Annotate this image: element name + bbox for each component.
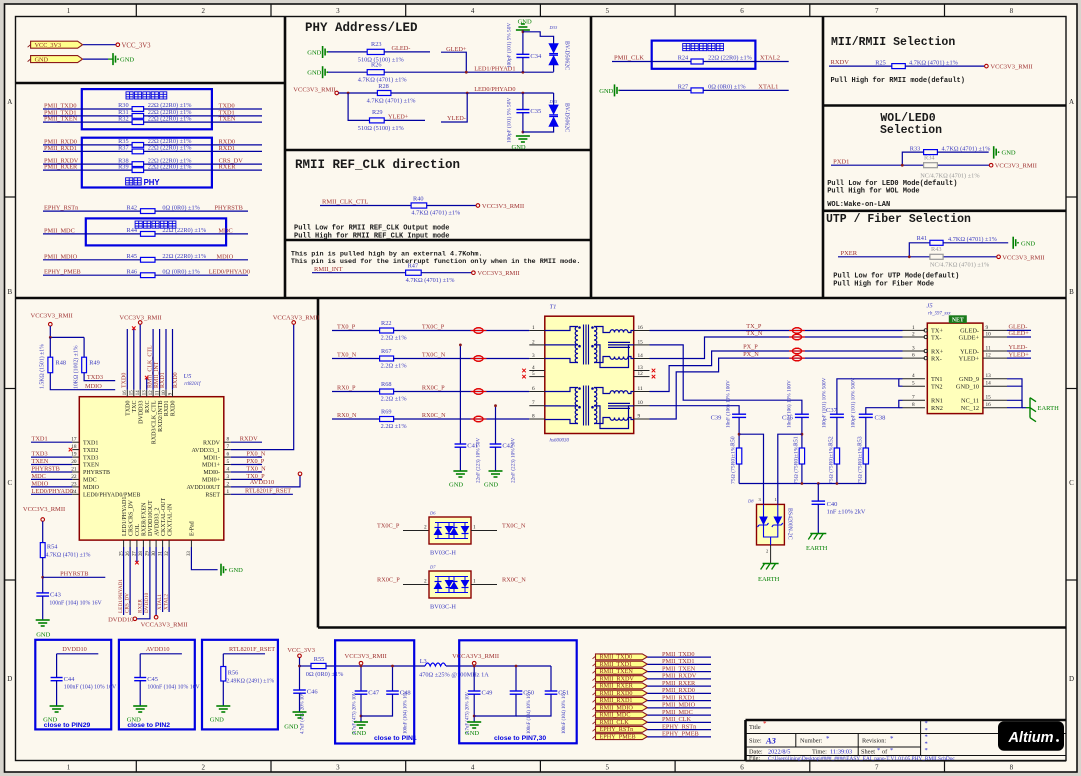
wire TX0C_P: [394, 330, 530, 332]
svg-text:9: 9: [986, 325, 989, 331]
group box close-to-core-board: [82, 89, 212, 129]
wire: [140, 653, 182, 655]
svg-text:YLED-: YLED-: [960, 348, 979, 355]
wire: [50, 326, 84, 337]
wire: [42, 596, 44, 620]
svg-text:PX0_P: PX0_P: [246, 458, 264, 465]
wire CKXTAL-IN down: [168, 547, 170, 612]
wire: [299, 693, 301, 712]
svg-text:EARTH: EARTH: [1038, 405, 1060, 412]
port GND: [31, 56, 83, 63]
resistor R23: [367, 49, 384, 54]
svg-text:1: 1: [67, 764, 71, 772]
wire CKXTAL-OUT down: [162, 547, 164, 612]
svg-text:RX0_P: RX0_P: [337, 384, 356, 391]
svg-text:RX+: RX+: [931, 348, 944, 355]
pin stubs bottom: [123, 540, 125, 547]
wire LED1/PHYAD1 net: [384, 71, 553, 73]
svg-text:NC/4.7KΩ (4701) ±1%: NC/4.7KΩ (4701) ±1%: [920, 173, 980, 180]
pin stubs transformer right: [634, 330, 650, 332]
wire TX0_N: [332, 358, 380, 360]
svg-text:GND: GND: [120, 57, 134, 64]
svg-text:R27: R27: [678, 84, 689, 91]
wire TX_P net: [650, 330, 903, 332]
power port GND c41: [453, 470, 467, 472]
wire: [49, 337, 51, 357]
wire GND_9/GND_10 join: [1007, 379, 1022, 386]
svg-text:LED0/PHYAD0: LED0/PHYAD0: [474, 86, 515, 93]
svg-text:RX0C_N: RX0C_N: [502, 577, 526, 584]
svg-text:R54: R54: [47, 543, 58, 550]
resistor R51: [799, 448, 804, 464]
wire AVDD33_1 to VCCA3V3_RMII: [231, 324, 294, 449]
svg-text:3: 3: [336, 764, 340, 772]
svg-text:VCCA3V3_RMII: VCCA3V3_RMII: [141, 622, 188, 629]
svg-text:*: *: [925, 747, 928, 754]
power port VCCA3V3_RMII right: [292, 321, 296, 325]
wire: [299, 658, 301, 690]
svg-text:0Ω (0R0) ±1%: 0Ω (0R0) ±1%: [306, 671, 344, 678]
wire TX0_N pin4: [231, 471, 262, 473]
svg-text:PMII_CLK: PMII_CLK: [662, 716, 691, 723]
differential pair directive RX0C_N: [471, 418, 487, 420]
wire: [905, 65, 984, 67]
svg-text:100pF (101) 5% 50V: 100pF (101) 5% 50V: [506, 23, 513, 68]
wire TXC vertical: [133, 329, 135, 390]
svg-text:MDI0-: MDI0-: [203, 470, 220, 476]
svg-text:2: 2: [532, 339, 535, 345]
svg-text:DVDD10: DVDD10: [108, 616, 133, 623]
wire MDC net: [155, 233, 248, 235]
svg-text:PMII_RXD0: PMII_RXD0: [662, 687, 695, 694]
op-amp U5 RTL8201F body: [79, 397, 224, 540]
svg-text:4.7KΩ (4701) ±1%: 4.7KΩ (4701) ±1%: [909, 59, 959, 66]
svg-text:4.7KΩ (4701) ±1%: 4.7KΩ (4701) ±1%: [367, 97, 417, 104]
svg-text:RMII_RXDV: RMII_RXDV: [600, 675, 635, 682]
svg-text:BV03C-H: BV03C-H: [430, 550, 456, 557]
wire: [738, 417, 740, 448]
port RMII_RXDV: [596, 676, 648, 682]
wire EPHY_PMEB net: [43, 274, 141, 276]
resistor R53: [863, 448, 868, 464]
svg-text:U5: U5: [183, 373, 192, 380]
wire CRS_DV down: [129, 547, 131, 615]
wire MDIO net: [155, 259, 248, 261]
svg-text:RXER: RXER: [138, 599, 144, 613]
svg-text:4.7KΩ (4701) ±1%: 4.7KΩ (4701) ±1%: [411, 209, 461, 216]
wire shield to EARTH: [1021, 386, 1023, 408]
svg-text:10nF (106) 10% 100V: 10nF (106) 10% 100V: [725, 380, 732, 428]
svg-text:A: A: [1069, 98, 1074, 106]
svg-text:PX0_N: PX0_N: [246, 451, 265, 458]
svg-text:D: D: [7, 675, 12, 683]
wire TXEN to pin 20: [31, 464, 72, 466]
svg-text:DVDD10OUT: DVDD10OUT: [148, 500, 154, 536]
svg-text:close to PIN1: close to PIN1: [374, 735, 417, 742]
power port VCC3V3_RMII: [472, 271, 476, 275]
svg-text:GND: GND: [352, 730, 366, 737]
wire RX0C_N: [471, 584, 497, 586]
svg-text:R50: R50: [731, 436, 737, 446]
wire: [522, 58, 524, 72]
wire: [473, 665, 475, 691]
wire: [738, 464, 740, 484]
resistor R24: [691, 59, 703, 64]
svg-text:8: 8: [532, 413, 535, 419]
wire PMII_TXD1 net: [43, 115, 132, 117]
transformer TX winding: [545, 327, 578, 331]
wire PMII_RXD1 net: [43, 150, 132, 152]
svg-text:7: 7: [912, 395, 915, 401]
svg-text:VCC3V3_RMII: VCC3V3_RMII: [1002, 254, 1044, 261]
svg-text:BV03C-H: BV03C-H: [430, 604, 456, 611]
svg-text:EPHY_RSTn: EPHY_RSTn: [600, 726, 634, 733]
wire TX0_P pin3: [231, 478, 262, 480]
resistor R56: [221, 667, 226, 682]
svg-text:YLED+: YLED+: [388, 114, 409, 121]
wire E-Pad to GND: [191, 547, 217, 570]
svg-text:C38: C38: [875, 414, 886, 421]
wire LED0/PHYAD0 to pin 24: [31, 493, 72, 495]
svg-text:DVDD10: DVDD10: [144, 592, 150, 613]
power port VCC3V3_RMII: [476, 204, 480, 208]
wire PMII_RXER: [647, 685, 711, 687]
wire: [516, 694, 551, 716]
svg-text:Pull High for RMII mode(defaul: Pull High for RMII mode(default): [831, 77, 965, 85]
svg-text:R42: R42: [127, 204, 138, 211]
svg-text:11: 11: [986, 345, 991, 351]
svg-text:22nF (223) 10% 50V: 22nF (223) 10% 50V: [510, 438, 517, 483]
svg-text:4.7KΩ (4701) ±1%: 4.7KΩ (4701) ±1%: [942, 145, 992, 152]
svg-text:8: 8: [912, 402, 915, 408]
svg-text:R43: R43: [931, 246, 942, 253]
svg-text:13: 13: [638, 365, 644, 371]
svg-text:Pull Low for UTP Mode(default): Pull Low for UTP Mode(default): [833, 273, 959, 281]
power port AVDD10 right: [298, 472, 302, 476]
wire C40 branch: [817, 484, 819, 502]
svg-text:R56: R56: [228, 669, 239, 676]
wire RXER net: [144, 169, 262, 171]
wire TX0C_N: [394, 358, 530, 360]
wire: [937, 151, 988, 153]
svg-text:6: 6: [912, 353, 915, 359]
wire: [831, 164, 989, 166]
svg-text:EPHY_RSTn: EPHY_RSTn: [44, 205, 79, 212]
wire TX0C_N: [471, 530, 497, 532]
svg-text:RXD1: RXD1: [164, 401, 170, 417]
svg-text:D33: D33: [549, 25, 558, 30]
svg-text:PHY Address/LED: PHY Address/LED: [305, 21, 418, 35]
svg-text:EARTH: EARTH: [806, 545, 828, 552]
wire: [339, 92, 378, 94]
wire RXD0 net: [144, 144, 262, 146]
svg-text:6: 6: [740, 7, 744, 15]
wire CRS_DV net: [144, 163, 262, 165]
wire: [459, 447, 461, 471]
svg-text:1.5KΩ (1501) ±1%: 1.5KΩ (1501) ±1%: [39, 344, 46, 389]
wire LED1/PHYAD1 down: [123, 547, 125, 615]
no-ERC mark RXC: [145, 376, 149, 380]
resistor R33: [924, 150, 938, 155]
svg-text:11:39:03: 11:39:03: [830, 749, 852, 756]
svg-text:TN2: TN2: [931, 384, 943, 391]
svg-text:R24: R24: [678, 55, 689, 62]
svg-text:TX-: TX-: [931, 334, 942, 341]
svg-text:NC/4.7KΩ (4701) ±1%: NC/4.7KΩ (4701) ±1%: [930, 261, 990, 268]
svg-text:C44: C44: [64, 676, 76, 683]
svg-text:PHYRSTB: PHYRSTB: [215, 205, 243, 212]
port RMII_RXER: [596, 683, 648, 689]
svg-text:TXD3: TXD3: [32, 451, 48, 458]
svg-text:2.2Ω ±1%: 2.2Ω ±1%: [381, 335, 408, 342]
capacitor C40: [812, 500, 826, 502]
svg-text:BV-D5062C: BV-D5062C: [564, 103, 570, 132]
wire RXER down: [142, 547, 144, 615]
svg-text:E-Pad: E-Pad: [190, 521, 196, 536]
wire COL stub: [136, 547, 138, 562]
svg-text:RX0C_P: RX0C_P: [422, 384, 445, 391]
capacitor C50: [515, 666, 517, 691]
svg-text:C37: C37: [826, 407, 838, 414]
svg-text:4: 4: [532, 365, 535, 371]
svg-text:LED0/PHYAD0: LED0/PHYAD0: [32, 488, 73, 495]
svg-text:GND: GND: [512, 144, 526, 151]
power port GND c49: [467, 721, 481, 723]
svg-text:COL: COL: [135, 524, 141, 536]
no-ERC mark pin18: [69, 448, 73, 452]
svg-text:MDIO: MDIO: [217, 253, 234, 260]
differential pair directive PX_N: [789, 357, 805, 359]
port RMII_MDIO: [596, 705, 648, 711]
svg-text:*: *: [890, 735, 894, 743]
NET tag: [949, 315, 967, 323]
diode D35 BV-D5062C: [549, 105, 558, 126]
no-ERC mark transformer pin4: [522, 369, 526, 373]
svg-text:XTAL2: XTAL2: [163, 594, 169, 610]
wire LED0/PHYAD0 net: [155, 274, 248, 276]
wire RX center tap to C39: [650, 406, 740, 415]
svg-text:Selection: Selection: [880, 124, 942, 137]
wire: [320, 205, 411, 207]
svg-text:XTAL1: XTAL1: [758, 84, 778, 91]
wire PHYRSTB to pin 21: [31, 471, 72, 473]
svg-text:R23: R23: [371, 41, 382, 48]
resistor R41: [930, 240, 943, 245]
port RMII_MDC: [596, 712, 648, 718]
svg-text:File:: File:: [749, 756, 760, 762]
wire: [360, 694, 362, 722]
svg-text:PMII_RXD1: PMII_RXD1: [662, 694, 695, 701]
svg-text:D6: D6: [429, 511, 436, 516]
earth ground below C40: [810, 533, 826, 535]
wire YLED- out: [1007, 350, 1031, 352]
wire: [836, 464, 838, 484]
wire EPHY_RSTn: [647, 729, 711, 731]
svg-text:8: 8: [1010, 7, 1014, 15]
svg-text:EPHY_RSTn: EPHY_RSTn: [662, 723, 697, 730]
svg-text:VCC_3V3: VCC_3V3: [287, 647, 315, 654]
svg-text:R67: R67: [381, 348, 392, 355]
svg-text:TN1: TN1: [931, 376, 943, 383]
wire: [328, 71, 367, 73]
port RMII_TXD0: [596, 654, 648, 660]
resistor R30: [132, 107, 144, 112]
svg-text:NET: NET: [952, 318, 964, 324]
svg-text:GND: GND: [1002, 150, 1016, 157]
svg-text:100nF (104) 10% 16V: 100nF (104) 10% 16V: [147, 684, 200, 691]
svg-text:R39: R39: [118, 163, 129, 170]
transformer T1 body: [545, 316, 634, 433]
svg-text:RMII_CLK_CTL: RMII_CLK_CTL: [147, 345, 153, 388]
wire RXC stub: [146, 379, 148, 390]
wire: [42, 521, 44, 542]
svg-text:4: 4: [471, 7, 475, 15]
wire TXD3 to pin 19: [31, 456, 72, 458]
svg-text:6: 6: [532, 386, 535, 392]
svg-text:13: 13: [986, 373, 992, 379]
svg-text:2: 2: [201, 7, 205, 15]
svg-text:LED0/PHYAD0/PMEB: LED0/PHYAD0/PMEB: [83, 493, 140, 499]
resistor R49: [82, 357, 87, 373]
svg-text:MDC: MDC: [218, 227, 232, 234]
wire: [522, 113, 524, 134]
capacitor C34: [516, 53, 529, 55]
svg-text:PHYRSTB: PHYRSTB: [60, 571, 88, 578]
svg-text:VCC3V3_RMII: VCC3V3_RMII: [482, 203, 524, 210]
wire PMII_MDC: [647, 714, 711, 716]
svg-text:3: 3: [912, 345, 915, 351]
svg-text:TXD0: TXD0: [126, 401, 132, 416]
svg-text:CKXTAL-IN: CKXTAL-IN: [167, 503, 173, 536]
svg-text:GLED+: GLED+: [1009, 330, 1030, 337]
wire MDIO net: [50, 373, 115, 390]
resistor R46: [141, 273, 156, 278]
svg-text:D7: D7: [429, 565, 436, 570]
wire: [83, 58, 108, 60]
svg-text:VCC3V3_RMII: VCC3V3_RMII: [293, 86, 335, 93]
wire XTAL1 net: [703, 89, 789, 91]
resistor R40: [411, 203, 427, 208]
svg-text:PMII_RXDV: PMII_RXDV: [662, 673, 697, 680]
svg-text:RN1: RN1: [931, 398, 943, 405]
wire: [943, 242, 1008, 244]
svg-text:C: C: [1069, 479, 1074, 487]
wire TX0_P: [332, 330, 380, 332]
svg-text:2.2Ω ±1%: 2.2Ω ±1%: [381, 423, 408, 430]
wire BS4200 left branch: [739, 434, 763, 504]
svg-text:R55: R55: [314, 656, 325, 663]
svg-text:RMII_CLK_CTL: RMII_CLK_CTL: [322, 199, 368, 206]
svg-text:R22: R22: [381, 320, 392, 327]
svg-text:R29: R29: [372, 109, 383, 116]
power port GND utp: [1012, 237, 1014, 249]
svg-text:C45: C45: [147, 676, 158, 683]
svg-text:YLED+: YLED+: [1009, 351, 1030, 358]
wire PMII_CLK: [647, 721, 711, 723]
svg-text:0Ω (0R0) ±1%: 0Ω (0R0) ±1%: [708, 84, 746, 91]
connector J5 RJ45 body: [927, 323, 983, 414]
svg-text:14: 14: [638, 353, 644, 359]
group box close to PIN1: [335, 640, 414, 743]
svg-text:1: 1: [473, 525, 476, 531]
svg-text:B: B: [1069, 288, 1074, 296]
svg-text:PX_P: PX_P: [743, 344, 758, 351]
resistor R39: [132, 168, 144, 173]
svg-text:C46: C46: [307, 689, 319, 696]
svg-text:1nF ±10% 2kV: 1nF ±10% 2kV: [827, 508, 866, 515]
port EPHY_PMEB: [596, 734, 648, 740]
svg-text:R68: R68: [381, 381, 392, 388]
svg-text:1: 1: [775, 497, 777, 502]
svg-text:2.49KΩ (2491) ±1%: 2.49KΩ (2491) ±1%: [226, 677, 274, 684]
svg-text:2: 2: [201, 764, 205, 772]
svg-text:C:\Users\lining\Desktop\####_#: C:\Users\lining\Desktop\####_####\EASY_E…: [768, 756, 955, 762]
wire DVDD33 to VCC3V3_RMII: [139, 324, 141, 389]
wire RX0_P: [332, 391, 380, 393]
resistor R28: [377, 91, 391, 96]
svg-text:R34: R34: [924, 155, 935, 162]
svg-text:RXD2/INTB: RXD2/INTB: [158, 401, 164, 432]
svg-text:6: 6: [740, 764, 744, 772]
svg-text:PMII_TXEN: PMII_TXEN: [44, 116, 78, 123]
svg-text:TXD2: TXD2: [83, 448, 98, 454]
title block grid: [746, 733, 1067, 735]
svg-text:RMII_RXD0: RMII_RXD0: [600, 690, 633, 697]
svg-text:PMII_RXD1: PMII_RXD1: [44, 145, 77, 152]
port RMII_RXD0: [596, 690, 648, 696]
svg-text:A3: A3: [765, 736, 777, 746]
svg-text:100pF (101) 10% 500V: 100pF (101) 10% 500V: [821, 377, 828, 428]
capacitor C35: [522, 93, 524, 110]
wire PMII_TXEN: [647, 671, 711, 673]
svg-text:TXEN: TXEN: [32, 458, 49, 465]
wire TX0C_P: [403, 530, 429, 532]
diode array D6 BV03C-H: [429, 517, 471, 544]
wire R41 branch: [909, 243, 930, 257]
svg-text:7: 7: [875, 7, 879, 15]
svg-text:VCC_3V3: VCC_3V3: [122, 42, 152, 49]
svg-text:Title: Title: [749, 724, 761, 731]
svg-text:PXER: PXER: [841, 250, 858, 257]
svg-text:5: 5: [532, 371, 535, 377]
svg-text:PMII_CLK: PMII_CLK: [614, 55, 644, 62]
svg-text:TXEN: TXEN: [83, 463, 100, 469]
svg-text:1: 1: [532, 325, 535, 331]
pin stubs left: [72, 441, 79, 443]
svg-text:Pull High for WOL Mode: Pull High for WOL Mode: [827, 188, 919, 196]
wire: [838, 256, 997, 258]
wire PMII_TXEN net: [43, 121, 132, 123]
svg-text:Pull Low for LED0 Mode(default: Pull Low for LED0 Mode(default): [827, 180, 957, 188]
svg-text:Pull Low for RMII REF_CLK Outp: Pull Low for RMII REF_CLK Output mode: [294, 225, 449, 233]
svg-text:22Ω (22R0) ±1%: 22Ω (22R0) ±1%: [708, 55, 753, 62]
svg-text:NC_11: NC_11: [961, 398, 979, 405]
resistor R54: [40, 543, 45, 558]
svg-text:AVDD33_1: AVDD33_1: [191, 448, 220, 454]
wire RX_N net: [650, 358, 903, 419]
svg-text:CRS/CRS_DV: CRS/CRS_DV: [128, 499, 134, 536]
svg-text:RXD0: RXD0: [173, 372, 179, 388]
svg-text:Time:: Time:: [812, 749, 827, 756]
svg-text:GND: GND: [449, 482, 463, 489]
svg-text:GND: GND: [36, 631, 50, 638]
capacitor C41: [455, 443, 467, 445]
svg-text:GND: GND: [210, 717, 224, 724]
svg-text:C34: C34: [530, 53, 542, 60]
svg-text:22Ω (22R0) ±1%: 22Ω (22R0) ±1%: [148, 115, 193, 122]
resistor R31: [132, 114, 144, 119]
svg-text:RSET: RSET: [205, 493, 220, 499]
